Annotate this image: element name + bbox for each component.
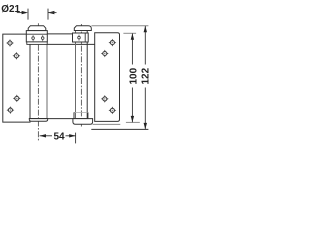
knuckle pin hole right <box>42 35 44 41</box>
dimension Ø21 right arrow tail <box>48 12 57 14</box>
svg-text:122: 122 <box>141 67 150 84</box>
side bottom knuckle box top line <box>74 111 88 113</box>
dimension 122 line <box>144 26 146 65</box>
dimension Ø21 right arrow <box>48 11 54 14</box>
screw hole H3 <box>13 95 21 103</box>
dimension 100 bottom arrow <box>131 116 134 122</box>
side top knuckle box <box>73 33 89 42</box>
dimension 54 line left part <box>40 135 52 137</box>
bottom connecting edge <box>30 118 88 120</box>
left top knuckle cap <box>28 26 46 31</box>
dimension 122 top extension line <box>92 25 149 27</box>
side view barrel right edge <box>86 31 88 119</box>
dimension 100 top tick <box>123 32 136 34</box>
dimension Ø21 leader line <box>17 12 23 14</box>
right plate hole H5 <box>109 39 117 47</box>
svg-text:54: 54 <box>54 131 66 142</box>
side bottom cap extension line <box>93 123 121 125</box>
dimension 54 right extension line <box>75 133 77 144</box>
side bottom knuckle box <box>74 112 88 118</box>
right plate hole H6 <box>101 50 109 58</box>
side knuckle seam <box>84 33 86 42</box>
right plate hole H8 <box>109 107 117 115</box>
dimension 54 right arrow <box>69 134 75 137</box>
side top cap <box>74 26 91 31</box>
svg-text:Ø21: Ø21 <box>1 4 20 15</box>
left leaf plate <box>3 34 30 122</box>
dimension 100 top arrow <box>131 33 134 39</box>
svg-text:100: 100 <box>128 67 139 84</box>
screw hole H1 <box>6 39 14 47</box>
left barrel center line <box>37 23 39 141</box>
left knuckle lower band <box>27 42 47 45</box>
dimension Ø21 left extension line <box>27 9 29 20</box>
screw hole H2 <box>13 52 21 60</box>
side bottom cap <box>73 119 93 125</box>
dimension 122 top arrow <box>144 26 147 32</box>
left barrel right edge <box>46 44 48 118</box>
dimension 54 line right part <box>66 135 76 137</box>
left barrel left edge <box>29 44 31 118</box>
side view barrel left edge <box>75 31 77 119</box>
left top knuckle box <box>26 31 47 42</box>
dimension 122 bottom arrow <box>144 123 147 129</box>
right mounting plate <box>95 33 120 122</box>
dimension 54 left arrow <box>40 134 46 137</box>
screw hole H4 <box>6 106 14 114</box>
left knuckle inner seam line <box>26 33 47 35</box>
middle leaf strip top edge <box>47 33 72 35</box>
dimension 100 bottom tick <box>126 121 140 123</box>
right plate hole H7 <box>101 95 109 103</box>
left bottom cap <box>29 119 47 122</box>
knuckle pin hole left <box>32 35 34 41</box>
dimension 100 line <box>131 33 133 64</box>
dimension Ø21 right extension line <box>47 9 49 20</box>
middle leaf strip bottom edge <box>47 43 94 45</box>
dimension 122 bottom extension line <box>91 128 148 130</box>
side knuckle pin hole <box>78 35 80 41</box>
dimension Ø21 left arrow <box>22 11 28 14</box>
side view barrel center line <box>80 24 82 127</box>
left bottom cap top line <box>29 118 47 120</box>
